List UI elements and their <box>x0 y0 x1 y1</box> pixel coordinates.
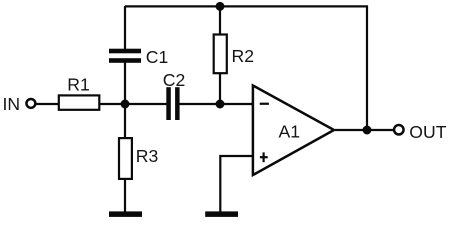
svg-text:R1: R1 <box>67 75 90 95</box>
svg-text:IN: IN <box>3 94 21 114</box>
svg-text:A1: A1 <box>279 121 301 141</box>
svg-text:C2: C2 <box>163 70 186 90</box>
svg-text:R3: R3 <box>136 146 159 166</box>
svg-text:OUT: OUT <box>409 122 446 142</box>
svg-text:R2: R2 <box>232 46 255 66</box>
svg-text:C1: C1 <box>146 47 169 67</box>
